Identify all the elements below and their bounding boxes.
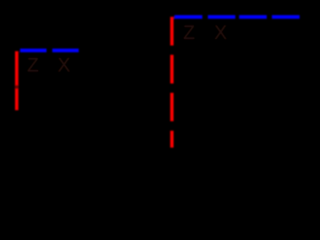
svg-text:X: X <box>214 23 227 44</box>
svg-text:Z: Z <box>27 55 39 76</box>
left red dashed vertical marker <box>15 51 18 110</box>
right blue dashed threshold line, dash 2 <box>208 15 235 19</box>
svg-text:Z: Z <box>183 23 195 44</box>
right blue dashed threshold line, dash 4 <box>272 15 300 19</box>
right red dashed vertical marker, dash 3 <box>170 93 173 121</box>
left blue dashed threshold line, dash 2 <box>52 49 78 53</box>
right red dashed vertical marker, dash 2 <box>170 55 173 84</box>
svg-text:X: X <box>58 55 71 76</box>
right red dashed vertical marker, dash 4 <box>170 131 173 148</box>
left red line dash gap (dimmed) <box>14 85 19 89</box>
right blue dashed threshold line, dash 3 <box>239 15 267 19</box>
right blue dashed threshold line, dash 1 <box>174 15 202 19</box>
right red dashed vertical marker, dash 1 <box>170 17 173 46</box>
left blue dashed threshold line, dash 1 <box>20 49 46 53</box>
